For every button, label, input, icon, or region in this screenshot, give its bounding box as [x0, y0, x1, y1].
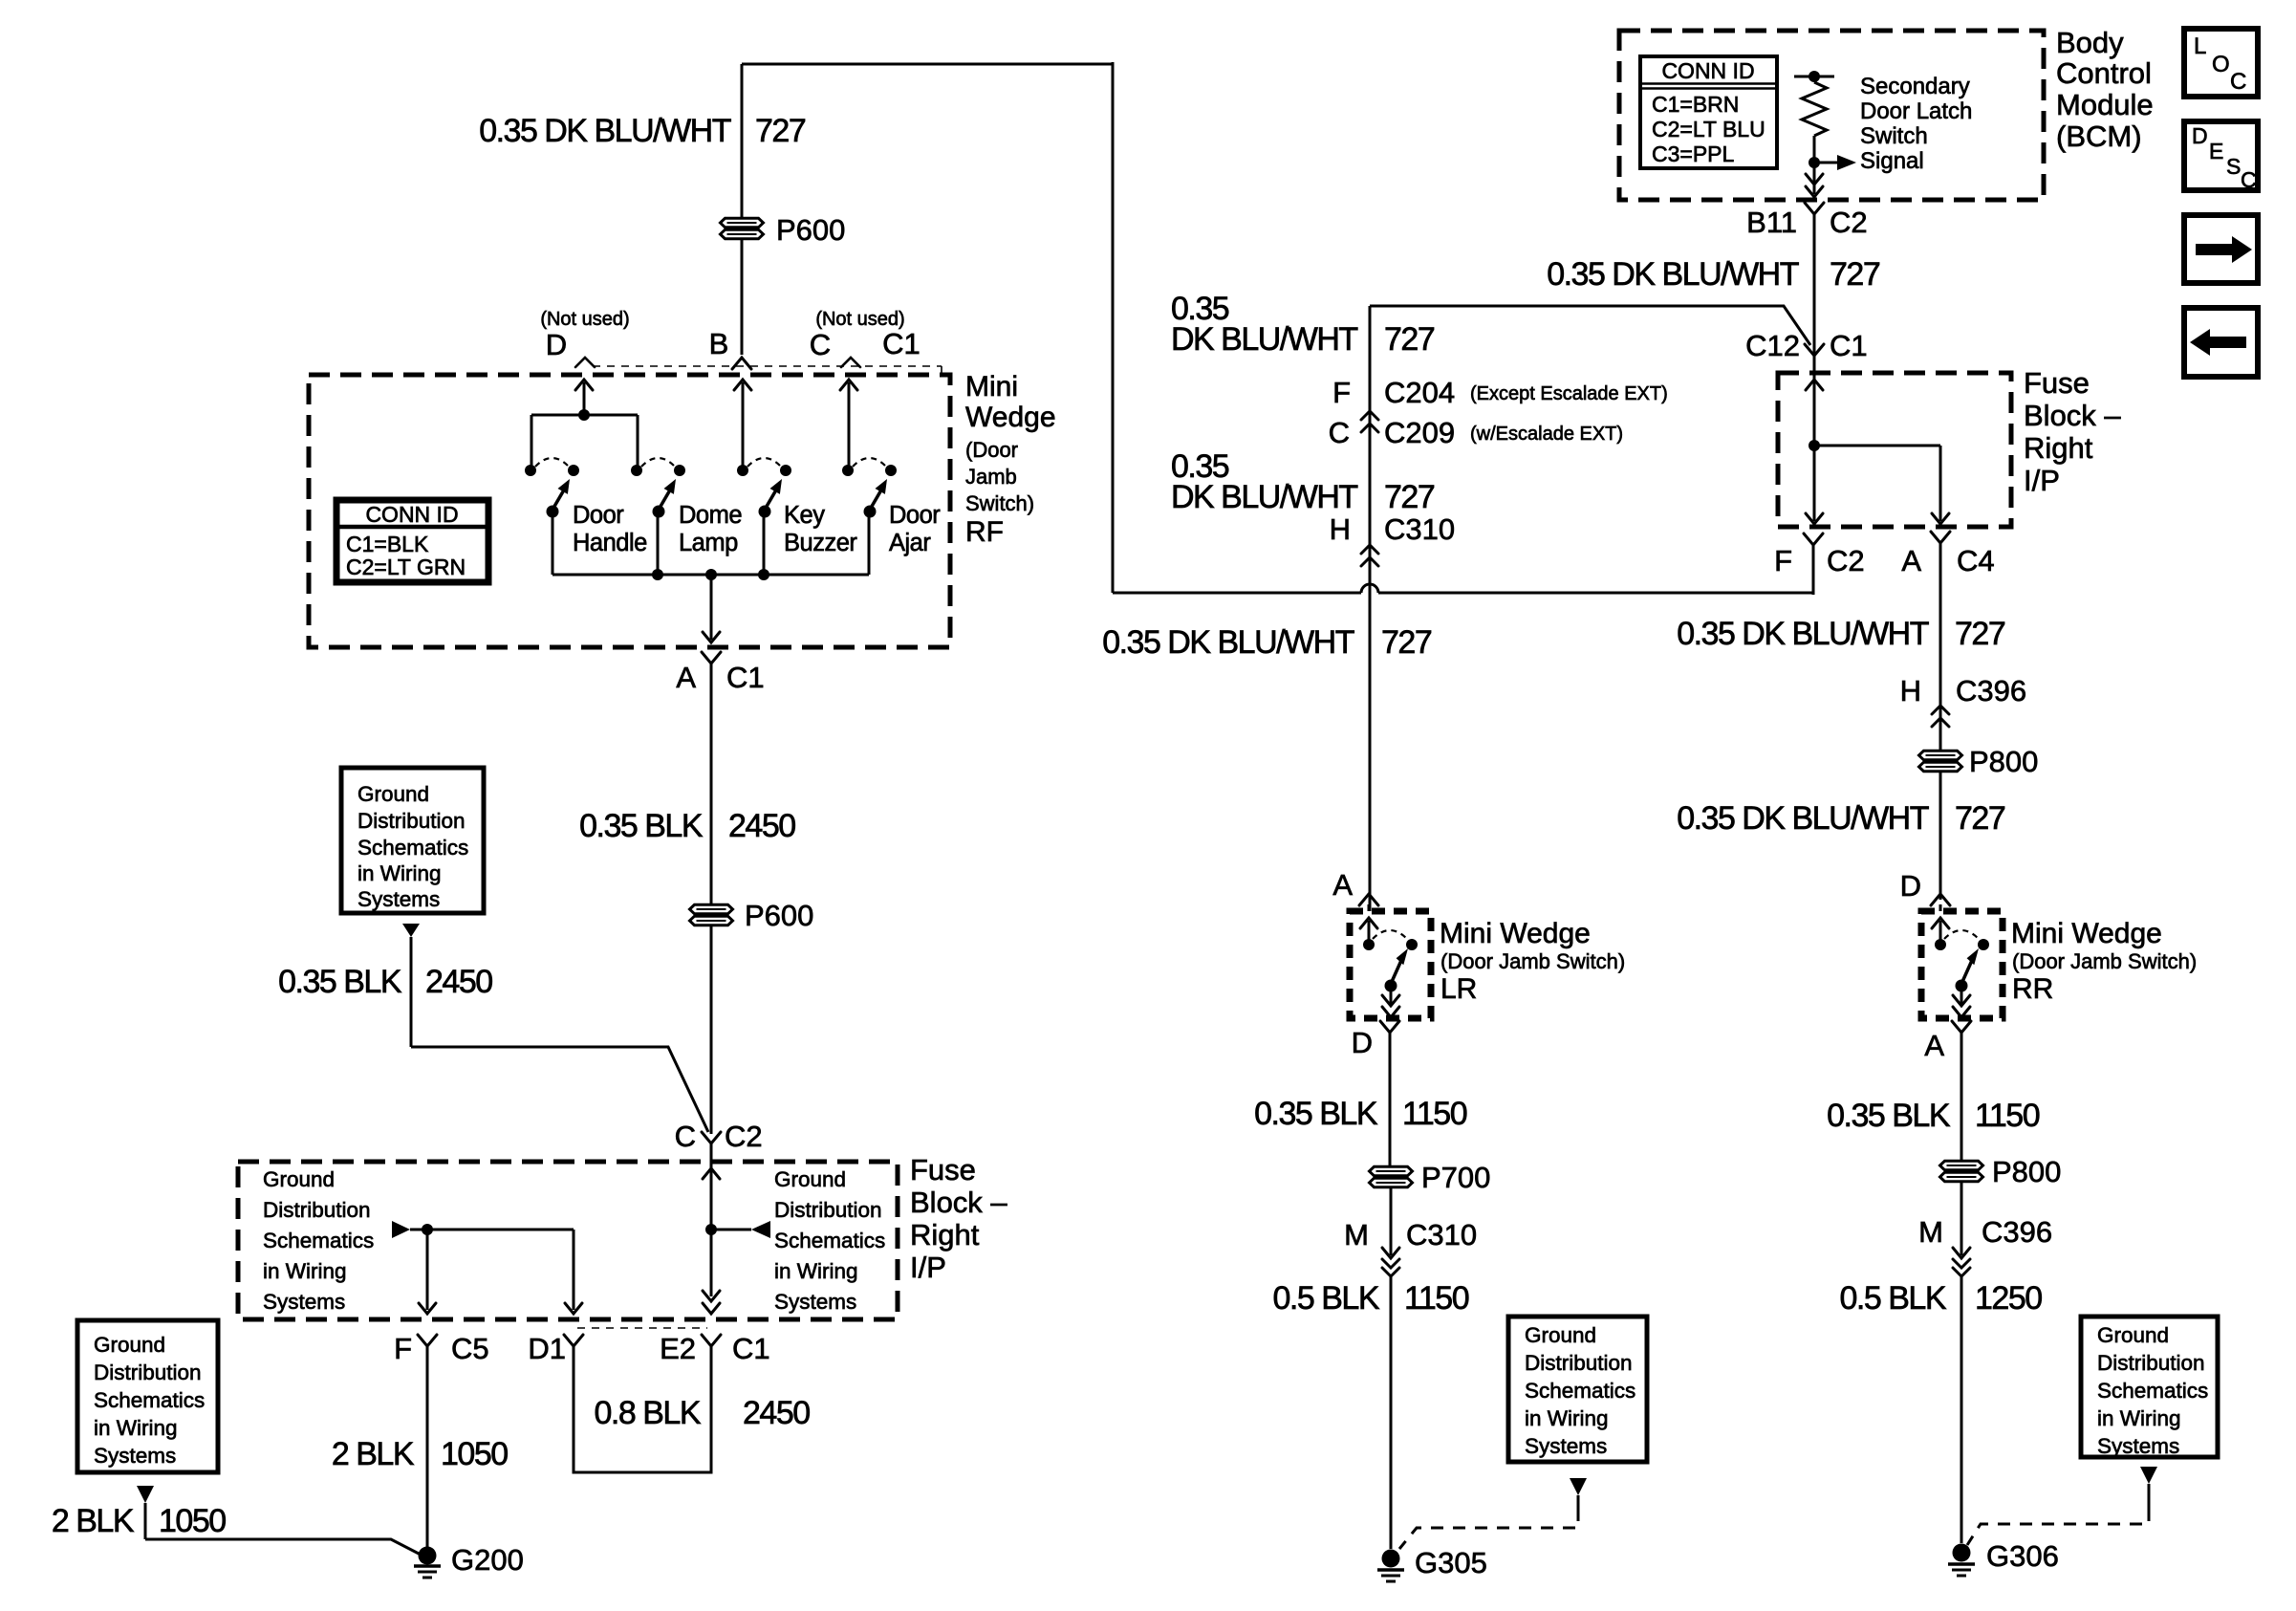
svg-text:Control: Control: [2056, 56, 2152, 90]
connector P700 (pass-through): [1370, 1161, 1491, 1194]
svg-text:D: D: [1900, 869, 1921, 903]
svg-text:RR: RR: [2012, 973, 2053, 1005]
svg-text:F: F: [394, 1332, 412, 1365]
off-page triangle below bottom-left box: [137, 1486, 154, 1539]
fuse block pin C-C2 Y connector: [702, 1132, 721, 1162]
fuse block right: junction and branch: [1809, 440, 1940, 521]
svg-text:Ground: Ground: [263, 1167, 335, 1191]
svg-text:C1: C1: [882, 327, 921, 360]
svg-text:B11: B11: [1746, 206, 1797, 239]
label Mini Wedge (Door Jamb Switch) LR: [1440, 918, 1625, 1005]
label Key Buzzer: [784, 502, 857, 556]
connector face dashed line (RF C1 pins): [593, 366, 942, 374]
svg-text:1050: 1050: [159, 1503, 226, 1539]
pin D caret (not used): [575, 358, 595, 367]
RR exit wire with arrows: [1953, 986, 1970, 1017]
wire below P700: [1390, 1187, 1393, 1255]
wire label 0.35 BLK 1150 (RR): [1827, 1098, 2040, 1134]
svg-text:C204: C204: [1384, 376, 1455, 409]
wire label 0.35 DK BLU/WHT 727 (BCM drop): [1547, 256, 1880, 293]
svg-text:Schematics: Schematics: [357, 836, 468, 860]
svg-text:CONN ID: CONN ID: [1661, 58, 1754, 83]
svg-text:(Door Jamb Switch): (Door Jamb Switch): [2012, 949, 2197, 973]
svg-text:Distribution: Distribution: [774, 1198, 882, 1222]
svg-text:Door: Door: [889, 502, 941, 529]
svg-text:727: 727: [1955, 800, 2005, 837]
svg-text:DK BLU/WHT: DK BLU/WHT: [1171, 479, 1357, 515]
svg-text:727: 727: [1955, 616, 2005, 652]
wire below P800 lower: [1960, 1182, 1963, 1255]
svg-text:2450: 2450: [425, 964, 492, 1000]
svg-text:(Not used): (Not used): [540, 309, 629, 330]
ground distribution reference box (G305): [1508, 1317, 1647, 1462]
svg-text:Distribution: Distribution: [263, 1198, 371, 1222]
label Secondary Door Latch Switch Signal: [1860, 74, 1972, 174]
connector P800 (pass-through, lower): [1940, 1155, 2062, 1188]
svg-text:0.35 BLK: 0.35 BLK: [278, 964, 402, 1000]
svg-text:2 BLK: 2 BLK: [52, 1503, 135, 1539]
svg-text:Secondary: Secondary: [1860, 74, 1970, 99]
svg-text:Systems: Systems: [357, 887, 440, 911]
svg-text:Body: Body: [2056, 26, 2124, 59]
wire label 0.5 BLK 1250: [1840, 1280, 2043, 1317]
label (Not used) left: [540, 309, 629, 330]
wire from C204/C209 node to C12: [1370, 306, 1810, 345]
svg-text:P600: P600: [776, 213, 845, 247]
label Door Ajar: [889, 502, 941, 556]
CONN ID table (RF): [336, 500, 488, 582]
svg-text:D: D: [546, 328, 567, 361]
svg-text:Block –: Block –: [2024, 399, 2121, 432]
svg-text:C1=BRN: C1=BRN: [1652, 92, 1739, 117]
svg-text:C: C: [1329, 416, 1350, 449]
svg-text:0.35 BLK: 0.35 BLK: [1254, 1096, 1378, 1132]
pin C caret (not used): [841, 358, 860, 367]
fuse block left: ground distribution text (right): [774, 1167, 885, 1314]
wire 727 top-left vertical (circuit 727 to RF door jamb switch): [741, 64, 744, 355]
svg-text:Mini: Mini: [965, 371, 1018, 403]
ground G306: [1948, 1539, 2059, 1576]
wire 1050 to ground G200: [145, 1539, 421, 1555]
svg-text:Fuse: Fuse: [2024, 366, 2090, 400]
svg-text:Right: Right: [2024, 431, 2093, 465]
ground G305: [1377, 1546, 1487, 1581]
svg-text:Dome: Dome: [679, 502, 742, 529]
svg-text:1150: 1150: [1404, 1280, 1469, 1317]
Mini Wedge LR box (dashed): [1350, 911, 1431, 1018]
svg-text:P800: P800: [1969, 745, 2038, 778]
legend box DESC: [2184, 121, 2258, 192]
wire label 0.35 BLK 1150 (LR): [1254, 1096, 1467, 1132]
svg-text:727: 727: [1384, 479, 1435, 515]
LR exit wire with arrows: [1382, 986, 1399, 1017]
wire 1250 to G306: [1960, 1276, 1963, 1543]
svg-text:in Wiring: in Wiring: [94, 1416, 178, 1440]
wire label 0.8 BLK 2450: [595, 1395, 811, 1431]
svg-text:Module: Module: [2056, 88, 2154, 121]
svg-text:C4: C4: [1957, 544, 1995, 577]
connector face dashed line (D1-E2): [577, 1327, 707, 1329]
svg-text:Ground: Ground: [774, 1167, 846, 1191]
wire below P800: [1939, 772, 1942, 900]
pin label B: [709, 327, 729, 360]
svg-text:Lamp: Lamp: [679, 530, 738, 556]
LR switch contacts and arm: [1360, 918, 1418, 992]
label Mini Wedge (Door Jamb Switch) RF: [965, 371, 1056, 548]
svg-text:0.35 DK BLU/WHT: 0.35 DK BLU/WHT: [1677, 616, 1929, 652]
svg-text:1150: 1150: [1402, 1096, 1467, 1132]
ground distribution reference box (G306): [2081, 1317, 2218, 1458]
svg-text:C396: C396: [1982, 1215, 2052, 1249]
svg-text:Systems: Systems: [94, 1444, 176, 1468]
svg-text:A: A: [1332, 868, 1353, 902]
svg-text:L: L: [2194, 33, 2206, 59]
svg-text:(Door Jamb Switch): (Door Jamb Switch): [1440, 949, 1625, 973]
BCM exit arrows to pin B11: [1806, 163, 1823, 197]
svg-text:E: E: [2209, 139, 2223, 163]
pin label D: [546, 328, 567, 361]
off-page triangle and dashed link to G305: [1399, 1478, 1587, 1549]
svg-text:in Wiring: in Wiring: [357, 861, 442, 885]
svg-text:1050: 1050: [441, 1436, 508, 1472]
svg-text:P600: P600: [745, 899, 813, 932]
svg-text:Door: Door: [573, 502, 624, 529]
label Dome Lamp: [679, 502, 742, 556]
svg-text:Key: Key: [784, 502, 825, 529]
svg-text:E2: E2: [660, 1332, 696, 1365]
svg-text:C12: C12: [1745, 329, 1800, 362]
RF internal arrow to pin C: [840, 380, 857, 470]
svg-text:F: F: [1332, 376, 1351, 409]
svg-text:D: D: [2192, 123, 2208, 148]
svg-text:C2: C2: [1830, 206, 1868, 239]
fuse block left: wire down to pin E2/C1: [703, 1230, 720, 1314]
svg-text:Distribution: Distribution: [94, 1361, 202, 1384]
svg-text:0.35 BLK: 0.35 BLK: [579, 808, 704, 844]
pin D Y connector (LR): [1380, 1021, 1399, 1166]
svg-text:0.35 DK BLU/WHT: 0.35 DK BLU/WHT: [479, 113, 731, 149]
connector C396 exit arrow and chevrons: [1953, 1248, 1970, 1276]
RF D-branch bar to door handle / dome lamp switches: [531, 409, 638, 467]
svg-text:0.35 DK BLU/WHT: 0.35 DK BLU/WHT: [1677, 800, 1929, 837]
label Fuse Block - Right I/P (right): [2024, 366, 2121, 497]
svg-text:Ground: Ground: [1525, 1323, 1596, 1347]
svg-text:Block –: Block –: [910, 1186, 1007, 1219]
svg-text:Distribution: Distribution: [1525, 1351, 1633, 1375]
pin label D (RR): [1900, 869, 1921, 903]
svg-text:CONN ID: CONN ID: [365, 502, 458, 527]
svg-text:Systems: Systems: [774, 1290, 856, 1314]
svg-text:Schematics: Schematics: [94, 1388, 205, 1412]
svg-text:0.35 BLK: 0.35 BLK: [1827, 1098, 1951, 1134]
svg-text:H: H: [1330, 512, 1351, 546]
svg-text:Buzzer: Buzzer: [784, 530, 857, 556]
svg-text:I/P: I/P: [910, 1251, 946, 1284]
svg-text:O: O: [2212, 52, 2230, 77]
svg-text:C5: C5: [451, 1332, 489, 1365]
pin label H / C310: [1330, 512, 1456, 546]
svg-text:in Wiring: in Wiring: [774, 1259, 858, 1283]
wire 1150 to G305: [1390, 1276, 1393, 1549]
wire 727 top horizontal run: [742, 62, 1113, 593]
svg-text:P700: P700: [1421, 1161, 1490, 1194]
pin label B11 / C2: [1746, 206, 1868, 239]
label Body Control Module (BCM): [2056, 26, 2154, 153]
legend box left arrow: [2184, 308, 2258, 377]
svg-text:C1: C1: [1830, 329, 1868, 362]
wire label 0.35 BLK 2450 (to ground distribution): [278, 964, 492, 1000]
svg-text:B: B: [709, 327, 729, 360]
svg-text:Right: Right: [910, 1218, 980, 1252]
svg-text:C: C: [2241, 167, 2257, 192]
connector P600 (pass-through, lower): [690, 899, 814, 932]
fuse block right: entry arrow: [1806, 373, 1823, 446]
svg-text:C1: C1: [726, 661, 765, 694]
svg-text:Wedge: Wedge: [965, 402, 1056, 433]
svg-text:G305: G305: [1415, 1546, 1487, 1579]
BCM internal resistor (secondary door latch switch signal): [1794, 71, 1834, 168]
ground distribution reference box (bottom left): [77, 1320, 218, 1472]
wire 727 lower horizontal run with hop over wire at x=1433: [1113, 545, 1813, 593]
svg-text:Distribution: Distribution: [2097, 1351, 2205, 1375]
svg-text:(w/Escalade EXT): (w/Escalade EXT): [1470, 424, 1623, 445]
pin label H / C396: [1900, 674, 2027, 708]
RF internal arrow to pin D: [575, 380, 593, 415]
svg-text:Fuse: Fuse: [910, 1153, 976, 1186]
svg-text:Schematics: Schematics: [774, 1229, 885, 1252]
svg-text:H: H: [1900, 674, 1921, 708]
Body Control Module box (dashed): [1619, 31, 2044, 200]
switch Door Ajar: [842, 458, 897, 518]
wire from ground distribution branch to node C-C2: [411, 1047, 708, 1132]
svg-text:G306: G306: [1986, 1539, 2059, 1573]
svg-text:Handle: Handle: [573, 530, 647, 556]
pin labels F C5 D1 E2 C1: [394, 1332, 770, 1365]
connector C204/C209 chevrons: [1361, 411, 1378, 432]
legend box right arrow: [2184, 215, 2258, 283]
wire 2450 from RF-A to P600: [710, 671, 713, 904]
label Mini Wedge (Door Jamb Switch) RR: [2011, 918, 2197, 1005]
pin label F / C204 (Except Escalade EXT): [1332, 376, 1668, 409]
svg-text:Schematics: Schematics: [1525, 1379, 1635, 1403]
svg-text:D: D: [1352, 1026, 1373, 1059]
pin labels F C2 A C4: [1774, 544, 1995, 577]
wire label 0.35 DK BLU/WHT 727 (above P700): [1102, 624, 1432, 661]
pin label M / C310 (lower): [1344, 1218, 1477, 1252]
svg-text:Mini Wedge: Mini Wedge: [2011, 918, 2162, 949]
svg-text:C3=PPL: C3=PPL: [1652, 142, 1735, 166]
wire 727 center vertical (C204/C310 run): [1369, 306, 1372, 911]
pin label C / C209 (w/Escalade EXT): [1329, 416, 1623, 449]
Fuse Block - Right I/P box (right, dashed): [1778, 373, 2011, 527]
svg-text:C310: C310: [1406, 1218, 1477, 1252]
svg-text:in Wiring: in Wiring: [263, 1259, 347, 1283]
connector C396 chevrons: [1932, 706, 1949, 727]
fuse block left: entry arrow from C2: [703, 1162, 720, 1230]
pin F-C2 Y connector: [1804, 533, 1823, 595]
svg-text:727: 727: [1381, 624, 1432, 661]
svg-text:727: 727: [755, 113, 806, 149]
pin label A / C1 (below RF): [676, 661, 764, 694]
wire label 0.35 DK BLU/WHT 727 (top left): [479, 113, 806, 149]
svg-text:C2: C2: [1827, 544, 1865, 577]
svg-text:C209: C209: [1384, 416, 1455, 449]
pin label C1 (RF top): [882, 327, 921, 360]
svg-text:C396: C396: [1956, 674, 2026, 708]
ground G200: [414, 1543, 524, 1578]
svg-text:C: C: [2230, 69, 2246, 95]
stacked wire label 0.35 DK BLU/WHT 727 (lower): [1171, 448, 1435, 515]
label Door Handle: [573, 502, 647, 556]
Mini Wedge RR box (dashed): [1921, 911, 2003, 1018]
svg-text:A: A: [1924, 1029, 1944, 1062]
switch Door Handle: [525, 458, 579, 518]
pin label C / C2: [675, 1120, 763, 1153]
RF internal arrow to pin B: [734, 380, 751, 470]
pin D1 Y connector and 0.8 BLK loop wire: [564, 1335, 721, 1472]
connector C310 exit arrow and chevrons: [1382, 1248, 1399, 1276]
wire label 2 BLK 1050 (bottom left): [52, 1503, 226, 1539]
switch pivot legs to common bus: [552, 512, 869, 575]
svg-text:(Except Escalade EXT): (Except Escalade EXT): [1470, 383, 1668, 404]
pin B11-C2 Y connector: [1805, 203, 1824, 356]
svg-text:C: C: [810, 328, 831, 361]
svg-text:C2: C2: [725, 1120, 763, 1153]
fuse block right: exit arrow to F: [1806, 513, 1823, 524]
svg-text:A: A: [1901, 544, 1921, 577]
RF common bus: [552, 569, 869, 580]
svg-text:Signal: Signal: [1860, 148, 1924, 174]
svg-text:I/P: I/P: [2024, 464, 2060, 497]
wire 2450 from P600 to fuse block: [710, 925, 713, 1134]
pin A Y connector (LR): [1359, 894, 1378, 911]
RR switch contacts and arm: [1932, 918, 1989, 992]
ground distribution reference box (upper left): [341, 768, 484, 913]
svg-text:P800: P800: [1992, 1155, 2061, 1188]
label Fuse Block - Right I/P (left): [910, 1153, 1007, 1284]
svg-text:Switch): Switch): [965, 491, 1034, 515]
svg-text:G200: G200: [451, 1543, 524, 1577]
svg-text:Systems: Systems: [2097, 1434, 2179, 1458]
pin label A (LR): [1332, 868, 1353, 902]
svg-text:1150: 1150: [1975, 1098, 2040, 1134]
wire label 2 BLK 1050 (G200 drop): [332, 1436, 508, 1472]
svg-text:2450: 2450: [728, 808, 795, 844]
pin F-C5 Y connector: [418, 1335, 437, 1549]
svg-text:727: 727: [1830, 256, 1880, 293]
svg-text:DK BLU/WHT: DK BLU/WHT: [1171, 321, 1357, 358]
wire label 0.35 DK BLU/WHT 727 (above C396): [1677, 616, 2005, 652]
svg-text:C1: C1: [732, 1332, 770, 1365]
svg-text:Distribution: Distribution: [357, 809, 466, 833]
connector P800 (pass-through, upper): [1919, 745, 2039, 778]
svg-text:A: A: [676, 661, 696, 694]
svg-text:C2=LT BLU: C2=LT BLU: [1652, 117, 1765, 142]
BCM signal arrow: [1814, 155, 1856, 170]
svg-text:Ground: Ground: [2097, 1323, 2169, 1347]
fuse block left: branch down to pin F: [419, 1230, 436, 1314]
svg-text:in Wiring: in Wiring: [1525, 1406, 1609, 1430]
wire label 0.5 BLK 1150: [1273, 1280, 1469, 1317]
svg-text:Schematics: Schematics: [2097, 1379, 2208, 1403]
pin A Y connector (RR): [1952, 1021, 1971, 1161]
svg-text:C310: C310: [1384, 512, 1455, 546]
fuse block left: branch down to pin D1: [565, 1230, 582, 1314]
pin label A (RR): [1924, 1029, 1944, 1062]
RF output wire to pin A with arrow: [703, 575, 720, 642]
svg-text:2450: 2450: [743, 1395, 810, 1431]
svg-text:0.5 BLK: 0.5 BLK: [1840, 1280, 1947, 1317]
stacked wire label 0.35 DK BLU/WHT 727 (upper): [1171, 291, 1435, 358]
svg-text:Ground: Ground: [94, 1333, 165, 1357]
pin label D (LR): [1352, 1026, 1373, 1059]
svg-text:Schematics: Schematics: [263, 1229, 374, 1252]
Fuse Block - Right I/P box (left, dashed): [238, 1162, 898, 1319]
svg-text:RF: RF: [965, 516, 1004, 548]
svg-text:0.35 DK BLU/WHT: 0.35 DK BLU/WHT: [1547, 256, 1799, 293]
svg-text:Ground: Ground: [357, 782, 429, 806]
svg-text:F: F: [1774, 544, 1792, 577]
svg-text:Jamb: Jamb: [965, 465, 1017, 489]
svg-text:Door Latch: Door Latch: [1860, 98, 1972, 124]
fuse block left: ground distribution text (left): [263, 1167, 374, 1314]
Mini Wedge RF door jamb switch box (dashed): [309, 375, 950, 647]
pin label M / C396 (lower): [1918, 1215, 2052, 1249]
wire label 0.35 DK BLU/WHT 727 (above RR): [1677, 800, 2005, 837]
pin label C: [810, 328, 831, 361]
svg-text:727: 727: [1384, 321, 1435, 358]
CONN ID table (BCM): [1640, 56, 1777, 168]
svg-text:0.5 BLK: 0.5 BLK: [1273, 1280, 1380, 1317]
pin C12-C1 Y connector: [1805, 344, 1824, 373]
wire label 0.35 BLK 2450 (upper): [579, 808, 795, 844]
svg-text:1250: 1250: [1975, 1280, 2042, 1317]
switch Dome Lamp: [631, 458, 685, 518]
svg-text:0.8 BLK: 0.8 BLK: [595, 1395, 702, 1431]
svg-text:(Door: (Door: [965, 438, 1018, 462]
svg-text:(BCM): (BCM): [2056, 120, 2142, 153]
svg-text:Ajar: Ajar: [889, 530, 931, 556]
off-page triangle below ground distribution box: [402, 924, 420, 1047]
connector C310 chevrons: [1361, 545, 1378, 566]
svg-text:Mini Wedge: Mini Wedge: [1440, 918, 1591, 949]
RF pin A Y connector: [702, 652, 721, 671]
fuse block right: exit arrow to A: [1932, 513, 1949, 524]
svg-text:D1: D1: [528, 1332, 566, 1365]
svg-text:S: S: [2226, 154, 2241, 179]
svg-text:M: M: [1918, 1215, 1943, 1249]
label (Not used) right: [815, 309, 904, 330]
svg-text:0.35 DK BLU/WHT: 0.35 DK BLU/WHT: [1102, 624, 1354, 661]
legend box LOC: [2184, 29, 2258, 97]
fuse block left: junction node and off-page triangle (right): [705, 1221, 770, 1238]
off-page triangle and dashed link to G306: [1967, 1467, 2157, 1545]
svg-text:M: M: [1344, 1218, 1369, 1252]
svg-text:C2=LT GRN: C2=LT GRN: [346, 555, 466, 579]
fuse block left: off-page triangle and bus to F/D1: [392, 1221, 574, 1238]
pin label C12 / C1: [1745, 329, 1868, 362]
svg-text:Systems: Systems: [1525, 1434, 1607, 1458]
RF B pin Y connector: [732, 358, 751, 369]
connector P600 (pass-through, upper): [721, 213, 846, 247]
pin A-C4 Y connector: [1931, 532, 1950, 751]
svg-text:LR: LR: [1440, 973, 1477, 1005]
svg-text:in Wiring: in Wiring: [2097, 1406, 2181, 1430]
switch Key Buzzer: [737, 458, 791, 518]
svg-text:Switch: Switch: [1860, 123, 1928, 149]
pin D Y connector (RR): [1931, 894, 1950, 911]
svg-text:C1=BLK: C1=BLK: [346, 532, 429, 556]
